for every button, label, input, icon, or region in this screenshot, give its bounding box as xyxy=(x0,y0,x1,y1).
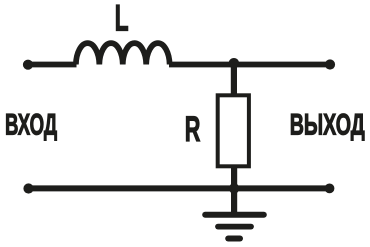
wire top-left segment (input to inductor) xyxy=(28,62,77,68)
wire resistor top stub xyxy=(231,62,237,95)
node junction bottom xyxy=(229,183,239,193)
node input top terminal xyxy=(23,60,33,70)
svg-text:R: R xyxy=(185,111,201,149)
node output top terminal xyxy=(325,59,335,69)
inductor L xyxy=(76,43,170,64)
ground xyxy=(205,215,264,239)
svg-text:ВЫХОД: ВЫХОД xyxy=(290,108,365,141)
wire top-right segment (inductor to output) xyxy=(169,62,330,68)
node output bottom terminal xyxy=(325,184,335,194)
resistor R xyxy=(218,95,249,166)
wire resistor bottom stub (to ground) xyxy=(231,166,237,214)
svg-text:ВХОД: ВХОД xyxy=(5,108,57,142)
wire bottom rail xyxy=(29,185,330,191)
node junction top (tap to resistor) xyxy=(229,58,240,69)
node input bottom terminal xyxy=(23,183,33,193)
svg-text:L: L xyxy=(115,0,129,39)
